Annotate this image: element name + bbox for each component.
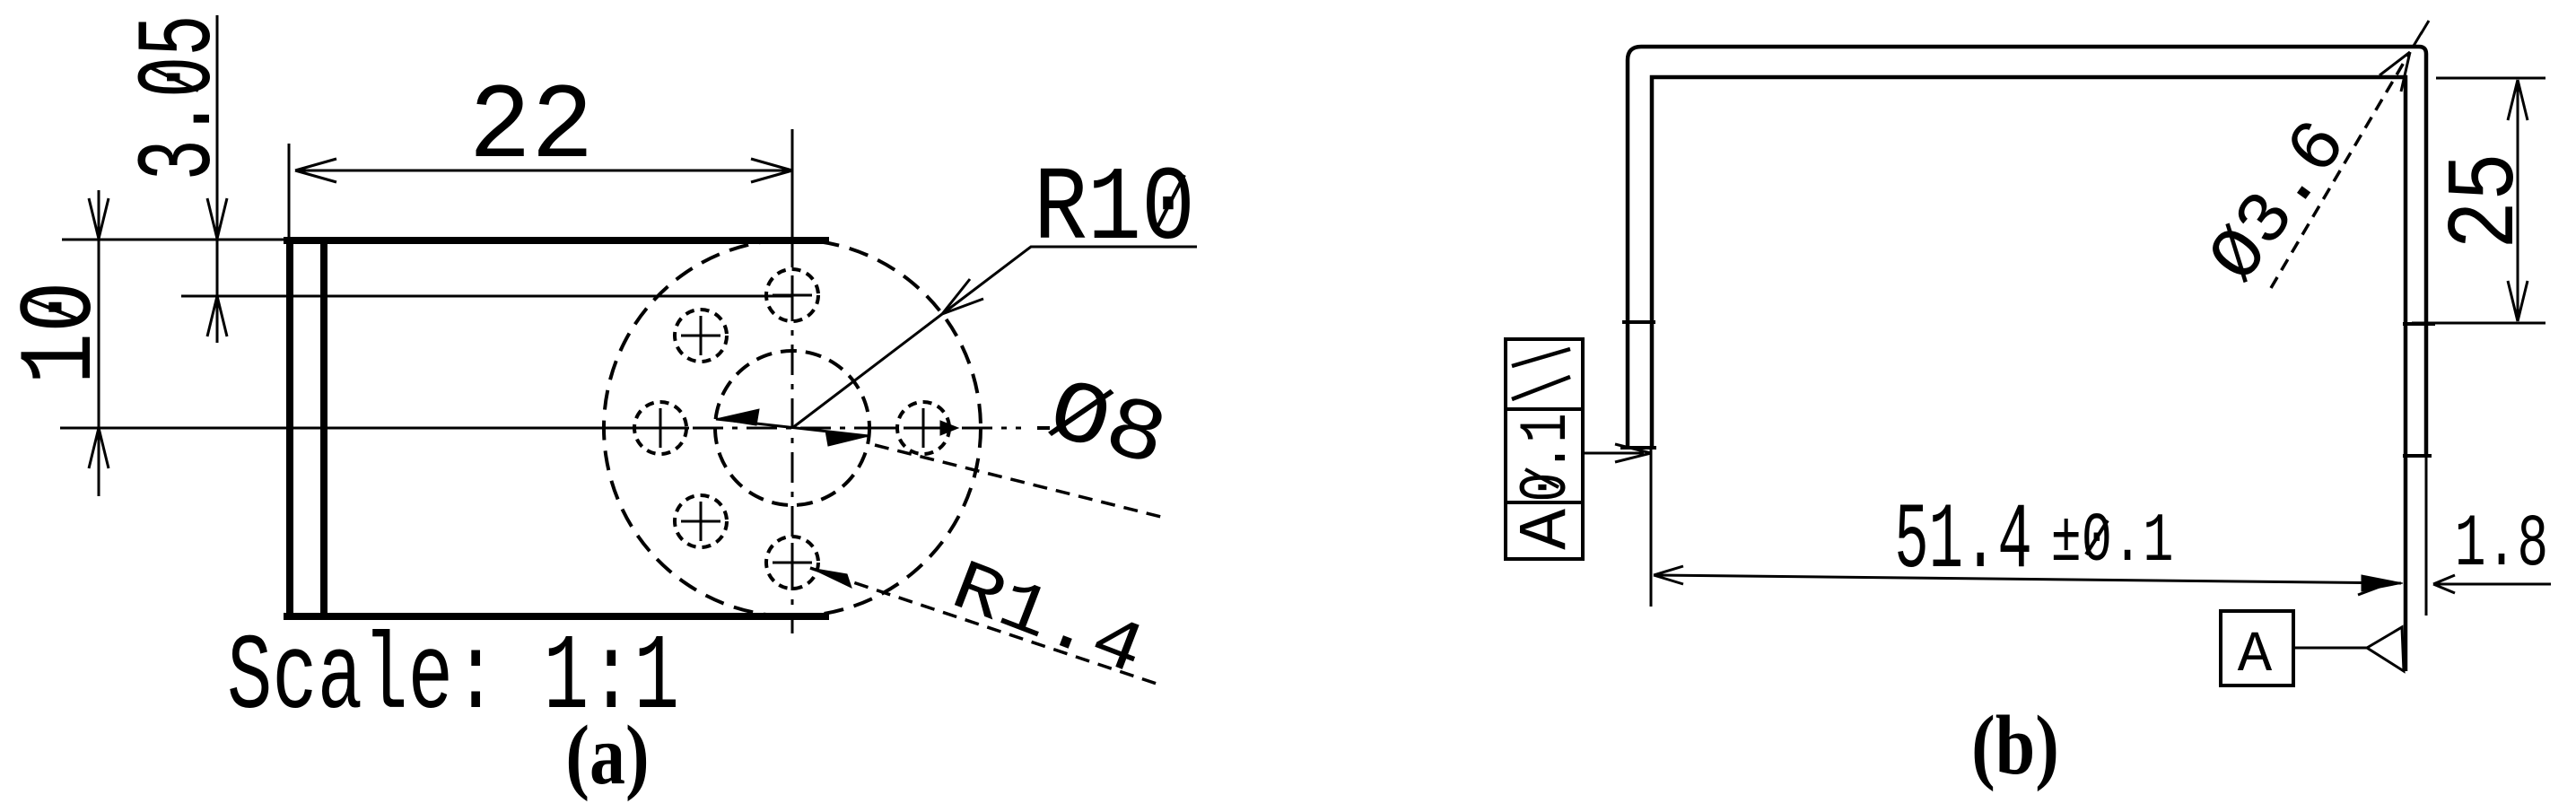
R10 arrowhead [942,279,983,314]
diameter 8 dashed leader [875,445,1168,519]
dimension 3.05 line [216,15,219,343]
hole bottom [766,537,818,589]
dimension 51.4 line [1656,575,2401,583]
left bottom extension [1650,448,1653,607]
frame leader [1583,452,1644,455]
extension line above centre [791,129,794,237]
tick right upper [2403,322,2435,326]
zero slash in 3.05 [146,65,198,91]
diameter 8 left arrow [716,409,759,425]
tick left upper [1622,320,1655,324]
hole upper-left [675,310,727,362]
svg-text:25: 25 [2432,153,2542,249]
datum A box [2221,611,2293,685]
dimension 25 top extension [2436,77,2545,80]
svg-text:(b): (b) [1971,698,2059,792]
dimension 51.4 right arrow barb [2358,587,2380,595]
short line to right hole [870,427,897,430]
svg-text:3.05: 3.05 [122,15,242,181]
R1.4 arrowhead [810,568,851,588]
datum triangle [2367,627,2404,671]
svg-text:22: 22 [468,68,593,189]
large dashed circle R10 [604,240,981,616]
R10 leader [942,247,1197,314]
svg-text:A: A [2238,624,2273,688]
hole right [897,402,949,454]
svg-text:A: A [1508,509,1585,550]
extension line above left edge [288,144,291,237]
feature control frame box [1506,339,1583,559]
dimension 22 right arrow [751,159,792,182]
dimension 1.8 arrow [2433,575,2455,593]
svg-text:10: 10 [3,281,121,384]
tick right lower [2403,454,2432,458]
part (a) plate bottom edge [284,613,829,620]
part (a) plate left outer edge [286,237,293,620]
dimension 10 lower arrow [89,428,109,468]
diameter 8 right arrow [825,431,869,446]
small arrow at right hole [940,421,958,435]
part (b) outer right extension below [2425,456,2428,616]
dimension 25 top arrow [2508,80,2528,120]
dimension 3.05 lower arrow [207,296,227,336]
svg-text:51.4: 51.4 [1894,488,2032,594]
part (a) plate left inner edge [320,237,327,620]
centreline end dot [1037,426,1050,430]
vertical centreline dash-dot [791,237,794,633]
dimension 10 upper arrow [89,198,109,239]
diameter 8 dimension line [716,419,869,436]
dimension 25 line [2517,80,2519,321]
svg-text:1.8: 1.8 [2455,503,2548,588]
datum leader [2293,647,2367,650]
R10 radius line [792,314,942,428]
zero slash in frame 0.1 [1525,469,1559,487]
dimension 51.4 left arrow [1654,566,1683,584]
zero slash in R10 [1156,175,1184,231]
diameter 3.6 end ticks [2414,21,2429,46]
frame leader arrow [1615,444,1651,462]
dimension 3.05 upper arrow [207,198,227,239]
zero slash in 10 [27,299,76,319]
hole lower-left [675,495,727,547]
R1.4 dashed leader [810,568,1159,685]
extension line hole row y330 [181,295,792,298]
extension line top-left [62,239,284,241]
dimension 10 line [98,190,100,496]
hole left [634,402,686,454]
diameter 3.6 dashed leader [2271,52,2410,288]
dimension 51.4 right arrow filled [2362,575,2403,591]
dimension 25 bottom extension [2412,322,2545,325]
tick left lower [1620,446,1656,450]
dimension 22 line [295,170,792,172]
dimension 1.8 line [2433,583,2551,586]
frame divider lower [1506,501,1583,504]
horizontal centreline dash-dot [693,427,1021,430]
svg-text:R10: R10 [1034,150,1195,269]
parallelism symbol [1512,349,1570,399]
svg-text:0.1: 0.1 [1508,413,1585,502]
part (b) outline outer [1628,47,2426,456]
horizontal centreline solid part [60,427,689,430]
hole top [766,269,818,321]
diameter 3.6 arrowhead [2380,52,2410,92]
central dashed circle D8 [715,351,869,505]
dimension 25 bottom arrow [2508,281,2528,321]
svg-text:±0.1: ±0.1 [2051,503,2174,581]
dimension 22 left arrow [295,159,336,182]
frame divider upper [1506,407,1583,411]
svg-text:(a): (a) [565,708,649,802]
part (a) plate top edge [284,237,829,244]
zero slash in plus-minus 0.1 [2086,520,2108,554]
part (b) outline inner [1652,77,2406,671]
